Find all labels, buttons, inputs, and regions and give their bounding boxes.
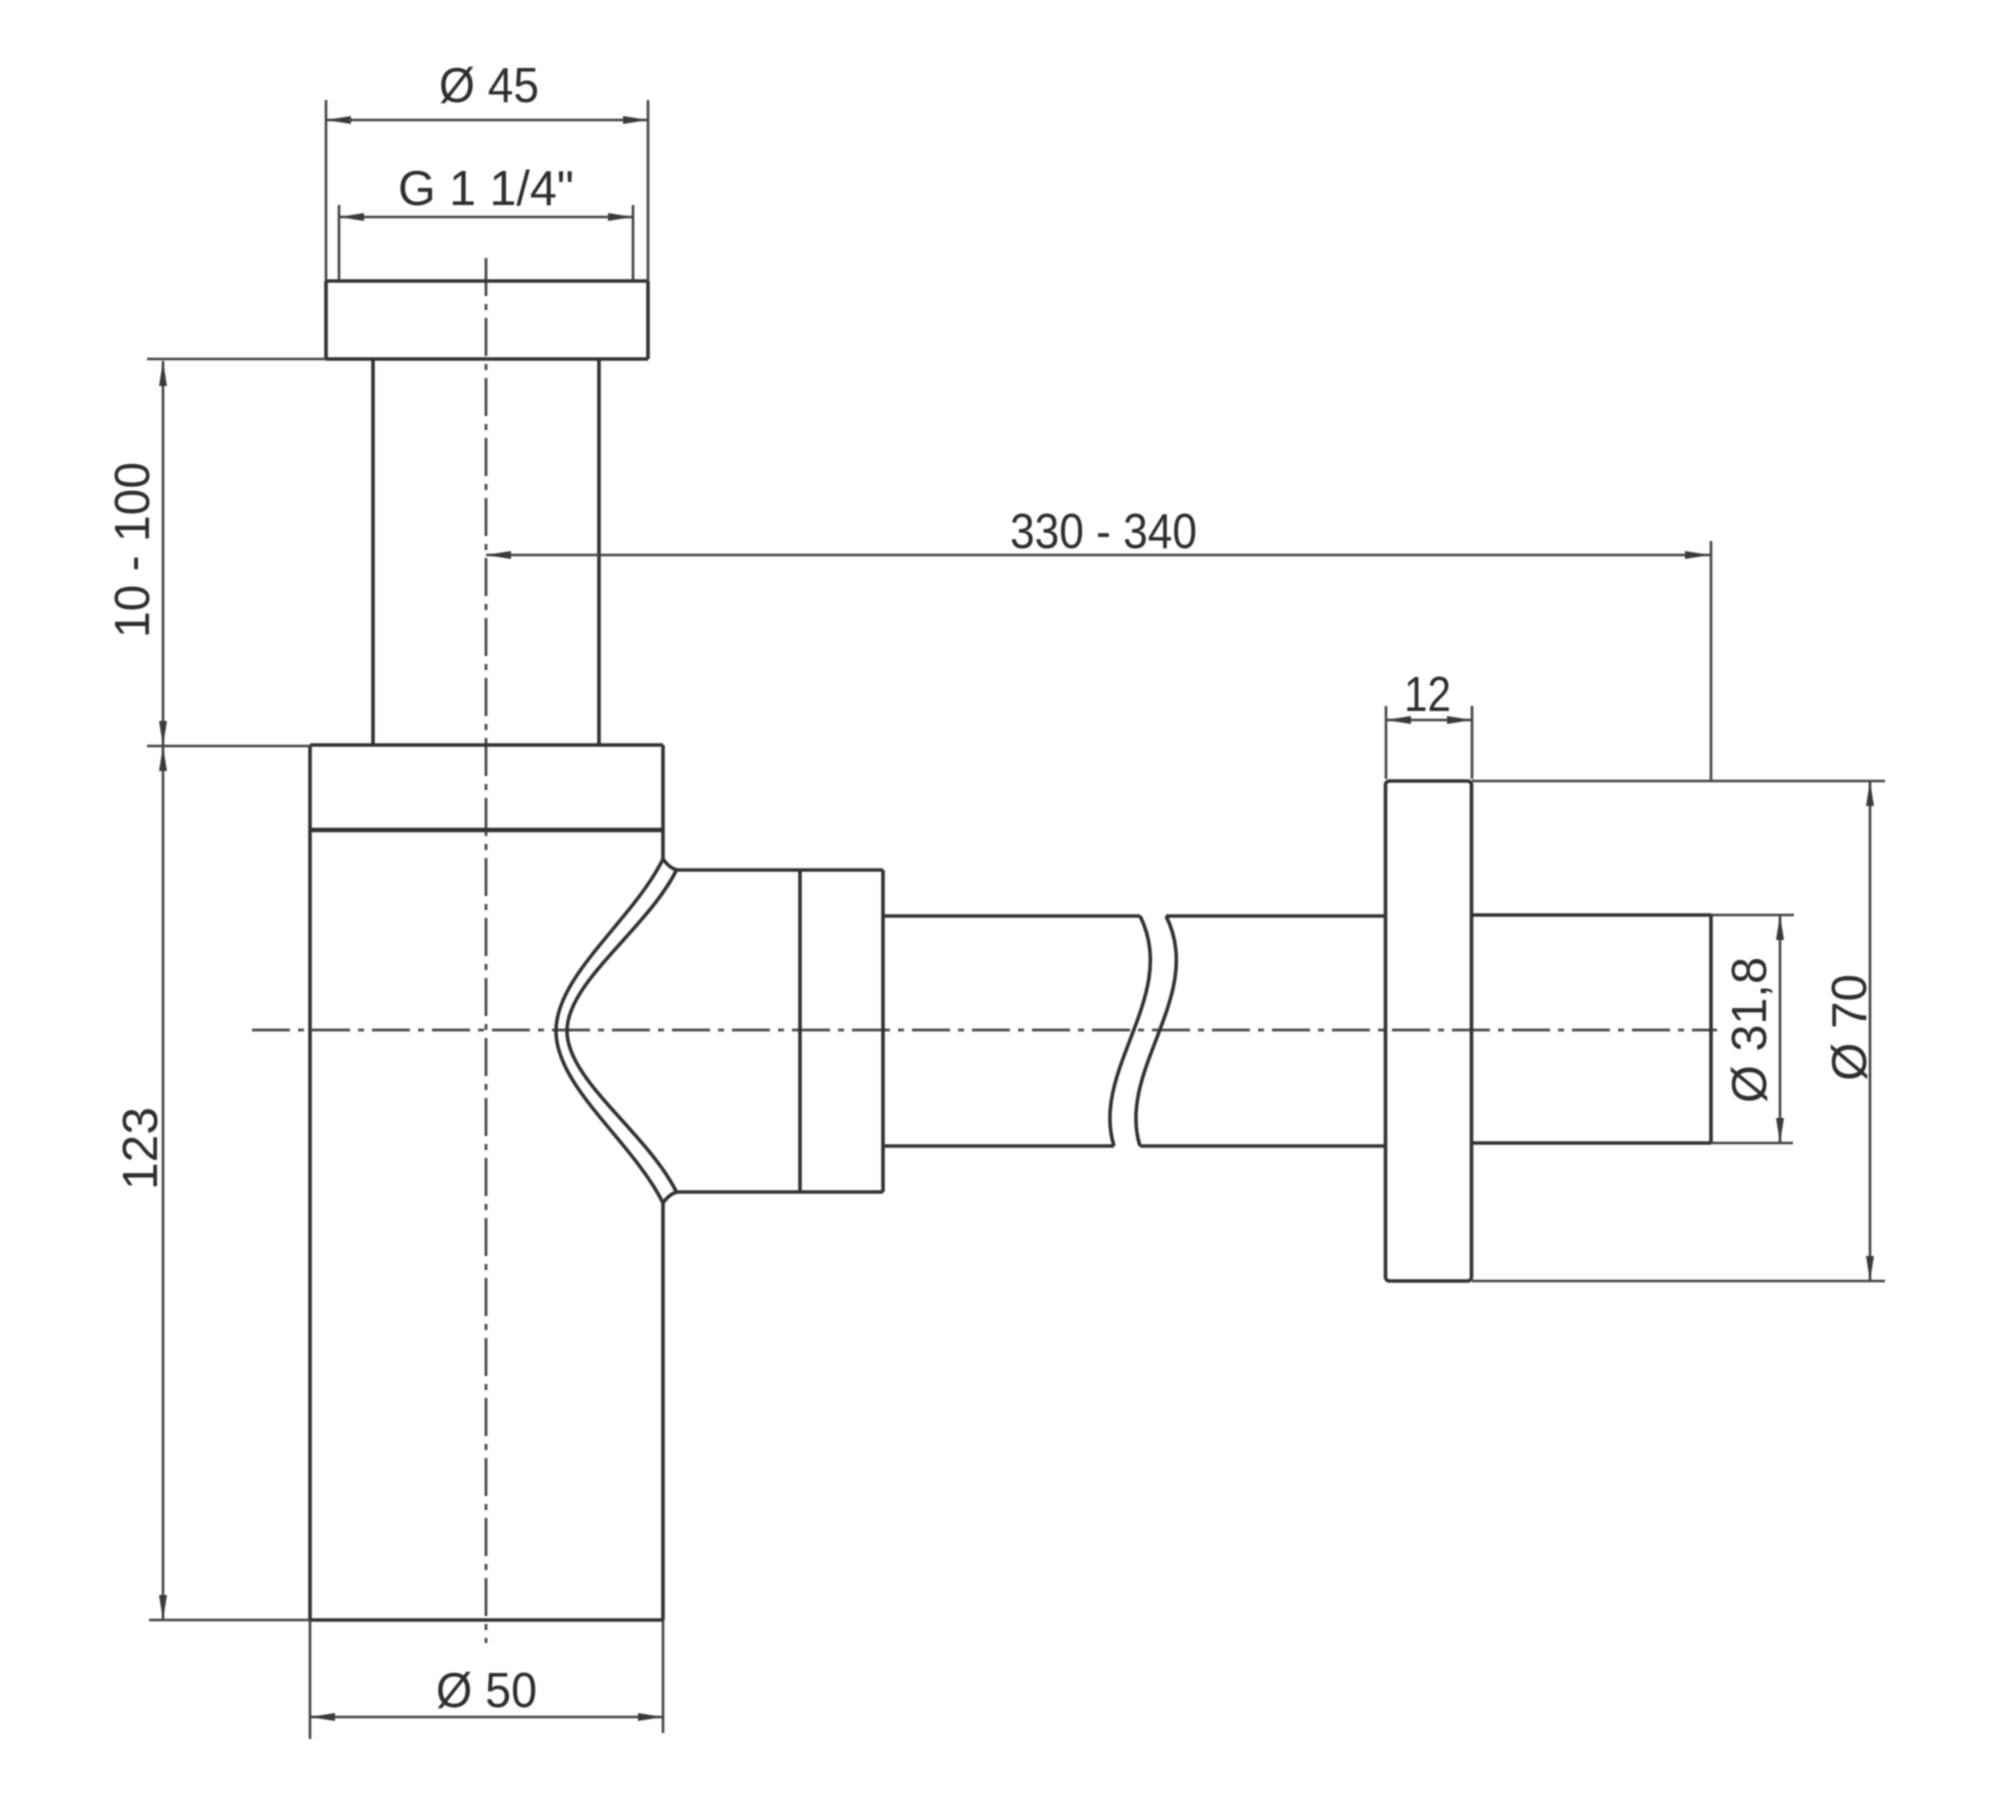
pipe stub behind flange: [1471, 915, 1711, 1143]
svg-text:Ø 45: Ø 45: [439, 59, 539, 113]
body cap ring: [310, 745, 663, 830]
top nut flange (G 1 1/4): [326, 281, 648, 359]
svg-text:12: 12: [1404, 668, 1451, 722]
vertical centerline of trap body: [485, 258, 488, 1643]
svg-text:123: 123: [114, 1107, 168, 1190]
outlet cone face and nut: [663, 859, 883, 1203]
wall flange rosette: [1386, 781, 1472, 1281]
horizontal centerline of outlet pipe: [252, 1029, 1717, 1032]
tailpipe tube: [373, 359, 599, 745]
svg-text:Ø 50: Ø 50: [436, 1664, 537, 1718]
trap body cylinder: [310, 745, 663, 1620]
outlet cone intersection curves: [556, 859, 676, 1203]
outlet pipe (with break): [883, 916, 1386, 1146]
svg-text:Ø 70: Ø 70: [1823, 974, 1877, 1081]
svg-text:330 - 340: 330 - 340: [1010, 505, 1197, 559]
svg-text:G 1 1/4": G 1 1/4": [398, 162, 574, 216]
svg-text:Ø 31,8: Ø 31,8: [1723, 957, 1777, 1103]
svg-text:10 - 100: 10 - 100: [106, 462, 160, 638]
